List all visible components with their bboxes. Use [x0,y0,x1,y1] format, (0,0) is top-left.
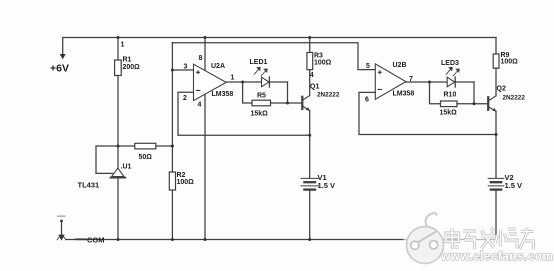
wire node B2 vertical [473,82,475,104]
watermark chinese characters (approximation strokes, embossed) [446,228,534,250]
wire LED3 to node B2 [455,81,474,83]
wire LED3 branch [430,81,448,83]
node B2 [473,102,476,105]
op-amp U2B [375,64,406,100]
node B1 [286,102,289,105]
svg-text:R1: R1 [123,57,132,64]
svg-text:6: 6 [365,96,369,103]
ground COM symbol [57,216,66,240]
U2A plus mark [196,70,200,74]
wire R1 bottom to TL431 node [117,76,119,169]
LED D1 [254,67,269,87]
wire ground rail under watermark [404,239,496,241]
char you [520,228,534,250]
wire LED1 to node B [269,81,287,83]
junction pin8 rail [204,36,207,39]
svg-text:www.elecfans.com: www.elecfans.com [440,249,553,263]
resistor R5 [252,100,271,106]
char shao [495,229,517,249]
char shao [495,229,517,249]
wire R1 column top [117,38,119,61]
svg-text:COM: COM [87,235,105,244]
char dian [446,229,459,248]
svg-text:5: 5 [366,63,370,70]
svg-text:Q2: Q2 [497,86,506,93]
svg-text:LM358: LM358 [393,90,415,97]
resistor R10 [441,101,458,107]
svg-text:100Ω: 100Ω [177,179,195,186]
svg-text:LED1: LED1 [250,59,268,66]
node A1 [241,81,244,84]
wire pin 4 power stub to ground rail [204,94,206,239]
junction Q2 emitter sense [495,133,498,136]
wire TL431 anode to ground rail [117,178,119,240]
wire Q1 emitter to V1 [309,111,311,178]
wire U2B pin 6 loop to Q2 emitter sense [359,92,496,134]
wire reference column to R2 [171,43,173,172]
+6V supply symbol [60,54,66,59]
resistor R3 [307,53,313,70]
wire node A2 down to R10 [430,82,441,104]
node 1 junction [117,36,120,39]
wire bottom ground rail [66,239,404,241]
watermark [407,213,554,263]
wire 50ohm net [96,146,172,173]
svg-text:8: 8 [199,55,203,62]
wire R3 to Q1 collector [309,70,311,96]
svg-text:Q1: Q1 [310,84,319,91]
svg-text:3: 3 [184,64,188,71]
U2B minus mark [378,88,382,90]
svg-text:.U1: .U1 [121,164,132,171]
wire node B vertical [287,82,289,103]
junction R2 / ground rail [171,238,174,241]
wire R9 to Q2 collector [495,68,497,96]
svg-text:4: 4 [198,101,202,108]
wire Q2 emitter to V2 [495,111,497,178]
wire node A down to R5 [243,82,252,103]
junction 50ohm / R2 [171,145,174,148]
svg-text:R2: R2 [177,172,186,179]
junction TL431 anode / ground rail [117,238,120,241]
svg-text:1.5 V: 1.5 V [505,181,523,190]
svg-text:100Ω: 100Ω [314,60,332,67]
battery V2 [488,178,504,189]
U2A minus mark [196,89,200,91]
wire V2 to ground rail [495,190,497,240]
char zi [463,231,477,250]
svg-text:1: 1 [121,42,125,49]
wire V1 to ground rail [309,190,311,240]
op-amp U2A [194,64,227,100]
resistor R9 [493,54,499,68]
wire LED1 branch [243,81,262,83]
svg-text:2N2222: 2N2222 [503,95,526,102]
transistor Q1 2N2222 [302,96,310,111]
char fa [481,228,495,249]
wire R2 bottom to ground rail [171,190,173,240]
resistor R1 [115,60,122,76]
wire pin 8 power stub [204,38,206,72]
char you [520,228,534,250]
junction Q1 emitter sense [308,134,311,137]
wire op-amp U2A pin 3 input [172,69,193,71]
svg-text:+6V: +6V [50,63,69,75]
wire R9 column [495,38,497,55]
svg-text:50Ω: 50Ω [139,154,153,161]
svg-text:15kΩ: 15kΩ [251,110,269,117]
svg-text:100Ω: 100Ω [501,59,519,66]
junction pin4 / ground rail [204,238,207,241]
svg-text:4: 4 [310,72,314,79]
junction V1 / ground rail [308,238,311,241]
wire reference rail (pin3/pin5 net) [172,43,375,70]
svg-text:200Ω: 200Ω [123,64,141,71]
wire R10 to node B2 and Q2 base [457,103,488,105]
wire top +6V rail [63,38,496,56]
svg-text:15kΩ: 15kΩ [440,110,458,117]
svg-text:1.5 V: 1.5 V [318,181,336,190]
junction pin3 tap [171,69,174,72]
svg-text:LED3: LED3 [441,60,459,67]
svg-text:2: 2 [183,95,187,102]
svg-text:U2A: U2A [211,63,225,70]
junction 50ohm / TL431 node [117,145,120,148]
wire U2A output pin 1 [226,81,242,83]
transistor Q2 2N2222 [488,96,496,112]
node A2 [428,81,431,84]
resistor R2 [169,172,175,190]
wire R3 column / node 4 [309,38,311,53]
svg-text:R5: R5 [257,92,266,99]
COM label dash [76,238,86,240]
svg-text:1: 1 [231,74,235,81]
transistor U1 TL431 [110,168,125,177]
wire R5 to node B and Q1 base [271,102,303,104]
U2B plus mark [378,70,382,74]
svg-text:LM358: LM358 [212,91,234,98]
watermark logo disc [407,227,444,264]
svg-text:TL431: TL431 [78,181,100,190]
svg-text:7: 7 [409,76,413,83]
junction R3 rail [308,36,311,39]
char dian [446,229,459,248]
svg-text:2N2222: 2N2222 [317,92,340,99]
resistor 50ohm [135,143,156,149]
char zi [463,231,477,250]
battery V1 [301,178,318,189]
wire U2B output pin 7 [406,81,430,83]
LED D3 [446,67,459,87]
svg-text:R10: R10 [444,91,457,98]
char fa [481,228,495,249]
wire op-amp U2A pin 2 input loop to Q1 emitter sense [178,92,310,135]
svg-text:U2B: U2B [393,62,407,69]
